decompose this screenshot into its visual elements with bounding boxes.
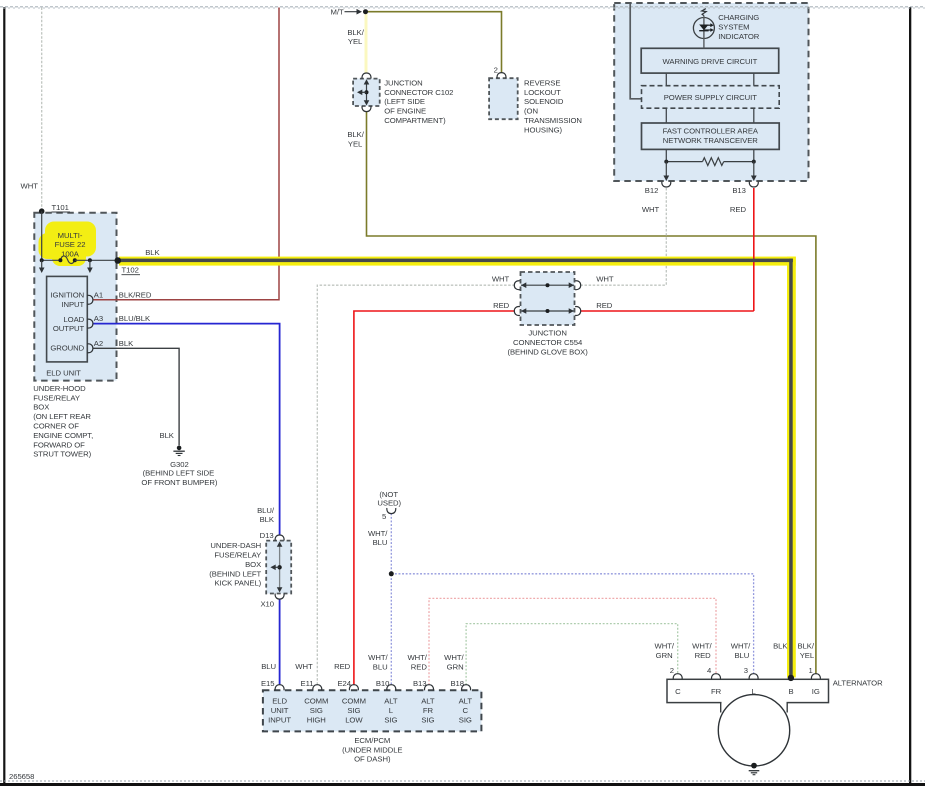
svg-text:FORWARD OF: FORWARD OF xyxy=(33,440,85,449)
svg-text:WHT/: WHT/ xyxy=(692,642,712,651)
bottom black bar xyxy=(0,783,925,786)
pin B18 cup xyxy=(462,685,471,691)
svg-text:WHT/: WHT/ xyxy=(368,529,388,538)
T101 junction dot xyxy=(39,208,45,214)
svg-text:BOX: BOX xyxy=(245,560,261,569)
pin E15 cup xyxy=(275,685,284,691)
label charging system indicator xyxy=(718,13,760,41)
junction connector C554 box xyxy=(521,272,575,325)
C102 bottom cup xyxy=(362,106,371,112)
svg-text:B18: B18 xyxy=(450,679,464,688)
svg-text:OF FRONT BUMPER): OF FRONT BUMPER) xyxy=(141,478,217,487)
bottom dotted rule xyxy=(0,780,925,782)
svg-text:SIG: SIG xyxy=(347,706,360,715)
svg-text:BLK: BLK xyxy=(145,248,160,257)
svg-text:FR: FR xyxy=(711,687,722,696)
svg-text:(BEHIND GLOVE BOX): (BEHIND GLOVE BOX) xyxy=(507,347,588,356)
svg-text:(LEFT SIDE: (LEFT SIDE xyxy=(384,97,425,106)
terminating resistor R xyxy=(664,158,756,166)
wire BLU/BLK A3 down to D13 xyxy=(93,324,280,536)
label comm sig low cell xyxy=(342,697,366,725)
svg-text:HIGH: HIGH xyxy=(307,716,326,725)
pin E11 cup xyxy=(313,685,322,691)
svg-text:WHT/: WHT/ xyxy=(655,642,675,651)
charging system indicator module box xyxy=(614,3,808,181)
svg-text:UNIT: UNIT xyxy=(271,706,289,715)
wire BLK/YEL from C102 to alternator IG xyxy=(367,111,816,674)
stub transceiver down left xyxy=(665,149,667,161)
svg-text:JUNCTION: JUNCTION xyxy=(528,329,566,338)
pin A2 cup xyxy=(87,344,93,353)
svg-text:WARNING DRIVE CIRCUIT: WARNING DRIVE CIRCUIT xyxy=(663,57,758,66)
svg-text:265658: 265658 xyxy=(9,772,34,781)
svg-text:M/T: M/T xyxy=(331,7,344,16)
svg-text:WHT: WHT xyxy=(492,275,510,284)
pin E24 cup xyxy=(349,685,358,691)
svg-text:OF DASH): OF DASH) xyxy=(354,755,391,764)
svg-text:INPUT: INPUT xyxy=(61,300,84,309)
svg-text:ELD UNIT: ELD UNIT xyxy=(46,368,81,377)
svg-text:ALT: ALT xyxy=(384,697,398,706)
svg-text:5: 5 xyxy=(382,512,386,521)
svg-text:SIG: SIG xyxy=(459,716,472,725)
svg-text:ALT: ALT xyxy=(421,697,435,706)
label under-hood fuse/relay box xyxy=(33,384,93,459)
svg-text:SIG: SIG xyxy=(310,706,323,715)
label comm sig high cell xyxy=(304,697,328,725)
svg-text:BLK/RED: BLK/RED xyxy=(119,290,152,299)
svg-text:100A: 100A xyxy=(61,250,80,259)
svg-text:REVERSE: REVERSE xyxy=(524,78,560,87)
svg-text:BLU: BLU xyxy=(373,663,388,672)
C102 top cup xyxy=(362,73,371,79)
svg-text:COMPARTMENT): COMPARTMENT) xyxy=(384,116,446,125)
C554 right cup row1 xyxy=(575,281,581,290)
svg-text:CORNER OF: CORNER OF xyxy=(33,422,79,431)
svg-text:T101: T101 xyxy=(52,203,69,212)
svg-text:MULTI-: MULTI- xyxy=(58,231,83,240)
svg-text:2: 2 xyxy=(670,666,674,675)
svg-text:WHT: WHT xyxy=(21,182,39,191)
label WHT/BLU at B10 xyxy=(368,653,388,671)
svg-text:RED: RED xyxy=(596,301,613,310)
C554 internal row1 xyxy=(521,282,574,288)
ELD load feed arrow xyxy=(87,260,93,273)
wire fuse to T102 xyxy=(75,259,118,261)
C554 left cup row2 xyxy=(514,307,520,316)
svg-text:C: C xyxy=(463,706,469,715)
label alt FR sig cell xyxy=(421,697,435,725)
wire BLK/YEL from M/T dot to solenoid xyxy=(366,12,502,73)
svg-text:(UNDER MIDDLE: (UNDER MIDDLE xyxy=(342,745,402,754)
svg-text:SIG: SIG xyxy=(421,716,434,725)
wire BLU X10 to E15 xyxy=(279,599,281,685)
svg-text:IG: IG xyxy=(812,687,820,696)
svg-text:RED: RED xyxy=(730,205,747,214)
fast CAN transceiver box xyxy=(642,123,780,149)
solenoid pin cup xyxy=(497,73,506,79)
svg-text:A3: A3 xyxy=(94,314,103,323)
ECM/PCM connector box xyxy=(263,690,482,731)
svg-text:LOCKOUT: LOCKOUT xyxy=(524,88,561,97)
label T101 xyxy=(52,203,71,212)
highlighted BLK wire yellow band vertical xyxy=(787,257,796,678)
label WHT/BLU at alternator xyxy=(731,642,751,660)
pin 5 not-used cup xyxy=(387,508,396,514)
corner junction dot xyxy=(40,258,44,262)
M/T junction dot xyxy=(363,9,368,14)
svg-text:B10: B10 xyxy=(376,679,390,688)
pin D13 cup xyxy=(275,535,284,541)
pin X10 cup xyxy=(275,594,284,600)
svg-text:GRN: GRN xyxy=(656,651,673,660)
label reverse lockout solenoid xyxy=(524,78,582,134)
svg-text:X10: X10 xyxy=(260,600,274,609)
label WHT/GRN at alternator xyxy=(655,642,675,660)
svg-text:POWER SUPPLY CIRCUIT: POWER SUPPLY CIRCUIT xyxy=(664,93,757,102)
label A1 BLK/RED xyxy=(94,290,152,299)
wire RED C554 right segment xyxy=(580,310,753,312)
pin A3 cup xyxy=(87,319,93,328)
label junction connector C102 xyxy=(384,78,453,125)
svg-text:NETWORK TRANSCEIVER: NETWORK TRANSCEIVER xyxy=(663,136,759,145)
pin cup B12 xyxy=(662,181,671,187)
svg-text:A2: A2 xyxy=(94,339,103,348)
svg-text:A1: A1 xyxy=(94,290,103,299)
label WHT/GRN at B18 xyxy=(444,653,464,671)
svg-text:IGNITION: IGNITION xyxy=(50,291,84,300)
C554 internal row2 xyxy=(521,308,574,314)
svg-text:ELD: ELD xyxy=(272,697,287,706)
label ELD unit input cell xyxy=(268,697,291,725)
wire BLK A2 to G302 xyxy=(93,348,180,445)
wire BLK/RED A1 to top xyxy=(93,8,279,300)
svg-text:YEL: YEL xyxy=(348,140,363,149)
alternator pin 4 cup xyxy=(712,674,721,680)
page cut zigzag top xyxy=(0,7,925,8)
pin cup B13 xyxy=(749,181,758,187)
svg-text:FUSE 22: FUSE 22 xyxy=(55,240,86,249)
svg-text:(BEHIND LEFT SIDE: (BEHIND LEFT SIDE xyxy=(143,469,215,478)
wire WHT B12 down xyxy=(665,188,667,285)
highlighted BLK wire yellow band horizontal xyxy=(119,257,796,266)
svg-text:INPUT: INPUT xyxy=(268,716,291,725)
svg-text:FR: FR xyxy=(423,706,434,715)
svg-text:BLK: BLK xyxy=(260,515,275,524)
svg-text:WHT/: WHT/ xyxy=(731,642,751,651)
label WHT/RED at alternator xyxy=(692,642,712,660)
svg-text:UNDER-DASH: UNDER-DASH xyxy=(210,541,261,550)
alternator housing stubs xyxy=(721,702,788,713)
B terminal junction dot xyxy=(788,675,794,681)
fuse feed wire xyxy=(42,211,61,260)
ELD ignition feed arrow xyxy=(39,260,45,273)
svg-text:COMM: COMM xyxy=(304,697,328,706)
svg-text:RED: RED xyxy=(695,651,712,660)
svg-text:(ON: (ON xyxy=(524,107,538,116)
svg-text:BLK/: BLK/ xyxy=(798,642,815,651)
label T102 xyxy=(122,266,141,275)
svg-text:GROUND: GROUND xyxy=(50,344,84,353)
label multi-fuse 22 100A xyxy=(55,231,86,259)
svg-text:(BEHIND LEFT: (BEHIND LEFT xyxy=(209,569,261,578)
svg-text:ECM/PCM: ECM/PCM xyxy=(354,736,390,745)
label WHT/BLU upper xyxy=(368,529,388,547)
under-dash internal symbol xyxy=(270,542,282,593)
svg-text:LOAD: LOAD xyxy=(63,315,84,324)
svg-text:YEL: YEL xyxy=(348,37,363,46)
svg-text:WHT: WHT xyxy=(596,275,614,284)
label A3 BLU/BLK xyxy=(94,314,151,323)
svg-text:KICK PANEL): KICK PANEL) xyxy=(214,579,261,588)
svg-text:(NOT: (NOT xyxy=(379,490,398,499)
svg-text:2: 2 xyxy=(494,65,498,74)
stub warning to power right xyxy=(753,73,755,86)
svg-text:B13: B13 xyxy=(413,679,427,688)
charging indicator LED xyxy=(693,16,714,49)
svg-text:YEL: YEL xyxy=(800,651,815,660)
svg-text:1: 1 xyxy=(808,666,812,675)
pin B13 cup xyxy=(425,685,434,691)
svg-text:COMM: COMM xyxy=(342,697,366,706)
svg-text:BLK: BLK xyxy=(160,431,175,440)
label BLK/YEL upper xyxy=(347,28,364,46)
pin B10 cup xyxy=(387,685,396,691)
svg-text:LOW: LOW xyxy=(345,716,363,725)
svg-text:WHT: WHT xyxy=(295,662,313,671)
stub warning to power left xyxy=(665,73,667,86)
svg-text:WHT/: WHT/ xyxy=(444,653,464,662)
svg-text:CHARGING: CHARGING xyxy=(718,13,759,22)
svg-text:HOUSING): HOUSING) xyxy=(524,125,563,134)
label under-dash fuse/relay box xyxy=(209,541,261,588)
wire WHT from top to T101 xyxy=(41,8,43,212)
svg-text:B12: B12 xyxy=(645,186,659,195)
wire WHT/BLU pin5 to B10 xyxy=(390,513,392,685)
svg-text:BLK/: BLK/ xyxy=(347,130,364,139)
label not used xyxy=(377,490,401,508)
svg-text:E15: E15 xyxy=(261,679,275,688)
svg-text:OF ENGINE: OF ENGINE xyxy=(384,107,426,116)
svg-text:B: B xyxy=(788,687,793,696)
label WHT/RED at B13 xyxy=(407,653,427,671)
svg-text:E11: E11 xyxy=(301,679,314,688)
svg-text:BLU/: BLU/ xyxy=(257,506,275,515)
svg-text:ENGINE COMPT,: ENGINE COMPT, xyxy=(33,431,93,440)
svg-text:(ON LEFT REAR: (ON LEFT REAR xyxy=(33,412,91,421)
svg-text:BLK/: BLK/ xyxy=(347,28,364,37)
label BLK/YEL below C102 xyxy=(347,130,364,148)
svg-text:C: C xyxy=(675,687,681,696)
label ECM/PCM xyxy=(342,736,402,764)
svg-text:FUSE/RELAY: FUSE/RELAY xyxy=(214,551,261,560)
svg-text:RED: RED xyxy=(411,663,428,672)
svg-text:E24: E24 xyxy=(337,679,351,688)
svg-text:T102: T102 xyxy=(122,266,139,275)
BLK wire core horizontal xyxy=(118,259,793,263)
stub power to transceiver right xyxy=(753,108,755,123)
svg-text:3: 3 xyxy=(744,666,748,675)
svg-text:B13: B13 xyxy=(732,186,746,195)
pin A1 cup xyxy=(87,295,93,304)
C102 internal symbol xyxy=(357,79,369,105)
svg-text:WHT/: WHT/ xyxy=(368,653,388,662)
svg-text:JUNCTION: JUNCTION xyxy=(384,78,422,87)
svg-text:BLK: BLK xyxy=(773,642,788,651)
junction connector C102 box xyxy=(353,79,380,106)
wire YEL from M/T dot to C102 xyxy=(365,12,368,73)
svg-text:STRUT TOWER): STRUT TOWER) xyxy=(33,450,91,459)
label fast controller area network transceiver xyxy=(663,127,759,145)
power supply circuit box xyxy=(642,86,780,109)
junction dot in fuse box xyxy=(88,258,92,262)
svg-text:GRN: GRN xyxy=(447,663,464,672)
wire WHT/GRN B18 to alternator C xyxy=(466,624,678,685)
under-dash fuse/relay box xyxy=(266,541,291,594)
wire WHT C554 left segment to E11 xyxy=(317,285,515,685)
alternator pin 3 cup xyxy=(749,674,758,680)
svg-text:ALT: ALT xyxy=(459,697,473,706)
right page border xyxy=(909,7,911,783)
label load output xyxy=(53,315,85,333)
svg-text:TRANSMISSION: TRANSMISSION xyxy=(524,116,582,125)
svg-text:RED: RED xyxy=(493,301,510,310)
label ignition input xyxy=(50,291,84,309)
stub transceiver down right xyxy=(753,149,755,161)
ELD unit inner box xyxy=(47,276,88,362)
ground G302 symbol xyxy=(173,446,184,456)
left page border xyxy=(3,7,5,783)
warning drive circuit box xyxy=(641,48,779,73)
svg-text:BOX: BOX xyxy=(33,403,49,412)
svg-text:FAST CONTROLLER AREA: FAST CONTROLLER AREA xyxy=(663,127,759,136)
svg-text:BLK: BLK xyxy=(119,339,134,348)
svg-text:RED: RED xyxy=(334,662,351,671)
svg-text:WHT: WHT xyxy=(642,205,660,214)
svg-text:WHT/: WHT/ xyxy=(407,653,427,662)
svg-text:OUTPUT: OUTPUT xyxy=(53,324,85,333)
svg-text:UNDER-HOOD: UNDER-HOOD xyxy=(33,384,86,393)
label alt L sig cell xyxy=(384,697,398,725)
C554 right cup row2 xyxy=(575,307,581,316)
wire RED B13 down xyxy=(753,188,755,311)
svg-text:G302: G302 xyxy=(170,460,189,469)
svg-text:BLU: BLU xyxy=(734,651,749,660)
ELD unit / under-hood fuse box outline xyxy=(34,213,116,381)
svg-text:FUSE/RELAY: FUSE/RELAY xyxy=(33,393,80,402)
svg-text:ALTERNATOR: ALTERNATOR xyxy=(833,679,883,688)
svg-text:CONNECTOR C554: CONNECTOR C554 xyxy=(513,338,583,347)
T102 junction dot xyxy=(115,257,122,264)
svg-text:D13: D13 xyxy=(260,531,274,540)
svg-text:SOLENOID: SOLENOID xyxy=(524,97,564,106)
label junction connector C554 xyxy=(507,329,588,357)
wire WHT C554 right segment xyxy=(580,284,666,286)
label BLU/BLK at D13 xyxy=(257,506,275,524)
reverse lockout solenoid box xyxy=(489,78,518,119)
svg-text:BLU: BLU xyxy=(261,662,276,671)
svg-text:BLU: BLU xyxy=(373,538,388,547)
highlighter blob on multi-fuse xyxy=(39,222,97,267)
svg-text:CONNECTOR C102: CONNECTOR C102 xyxy=(384,88,453,97)
wire WHT/BLU to alternator L xyxy=(391,574,753,674)
label alt C sig cell xyxy=(459,697,473,725)
pin B13 arrow xyxy=(751,162,757,181)
alternator body circle xyxy=(718,695,789,766)
C554 left cup row1 xyxy=(514,281,520,290)
wire feed into module xyxy=(630,4,641,99)
alternator internal ground xyxy=(749,763,760,775)
wire RED C554 left segment to E24 xyxy=(354,311,515,685)
label BLK/YEL at alternator xyxy=(798,642,815,660)
wire WHT/RED B13 to alternator FR xyxy=(429,598,716,685)
label A2 BLK xyxy=(94,339,134,348)
svg-text:SYSTEM: SYSTEM xyxy=(718,23,749,32)
BLK wire core vertical xyxy=(789,259,793,678)
M/T arrow xyxy=(345,9,363,15)
stub power to transceiver left xyxy=(665,108,667,123)
label G302 xyxy=(141,460,217,487)
svg-text:SIG: SIG xyxy=(384,716,397,725)
multi-fuse 22 element xyxy=(58,256,76,264)
alternator pin 2 cup xyxy=(673,674,682,680)
pin B12 arrow xyxy=(663,162,669,181)
svg-text:INDICATOR: INDICATOR xyxy=(718,32,760,41)
alternator pin 1 cup xyxy=(811,674,820,680)
svg-text:USED): USED) xyxy=(377,499,401,508)
WHT/BLU junction dot xyxy=(389,571,394,576)
LED squiggle to top xyxy=(702,9,707,16)
svg-text:BLU/BLK: BLU/BLK xyxy=(119,314,151,323)
alternator box xyxy=(667,679,829,704)
